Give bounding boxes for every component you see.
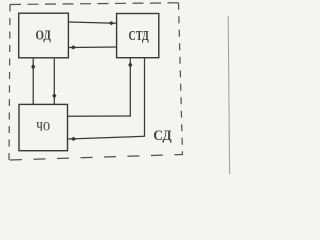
- block ЧО box: [19, 104, 68, 150]
- dashed boundary СД left: [9, 5, 10, 162]
- arrow into ОД right: [70, 45, 76, 49]
- svg-text:ЧО: ЧО: [36, 120, 50, 134]
- wire СТД→ОД (second link): [69, 46, 117, 49]
- arrow into СТД left: [109, 21, 115, 25]
- arrow into ЧО top: [52, 93, 56, 99]
- arrow into ОД bottom: [31, 64, 35, 70]
- arrow into ЧО right: [71, 137, 77, 141]
- svg-text:ОД: ОД: [36, 29, 52, 44]
- wire ОД→ЧО (right vertical): [53, 58, 55, 105]
- dashed boundary СД top: [10, 3, 179, 5]
- block СТД box: [117, 14, 159, 58]
- wire ОД→СТД (top link): [68, 22, 116, 23]
- wire СТД→ЧО (via bottom): [68, 58, 144, 139]
- dashed boundary СД bottom: [10, 155, 183, 161]
- dashed boundary СД right: [179, 3, 183, 155]
- arrow into СТД bottom: [128, 62, 132, 68]
- wire ЧО→СТД (via bottom): [68, 58, 131, 116]
- background paper: [0, 0, 232, 174]
- page edge line right: [228, 16, 229, 174]
- wire ЧО→ОД (left vertical): [32, 58, 34, 105]
- svg-text:СД: СД: [153, 128, 171, 144]
- block ОД box: [19, 13, 69, 58]
- svg-text:СТД: СТД: [129, 29, 150, 44]
